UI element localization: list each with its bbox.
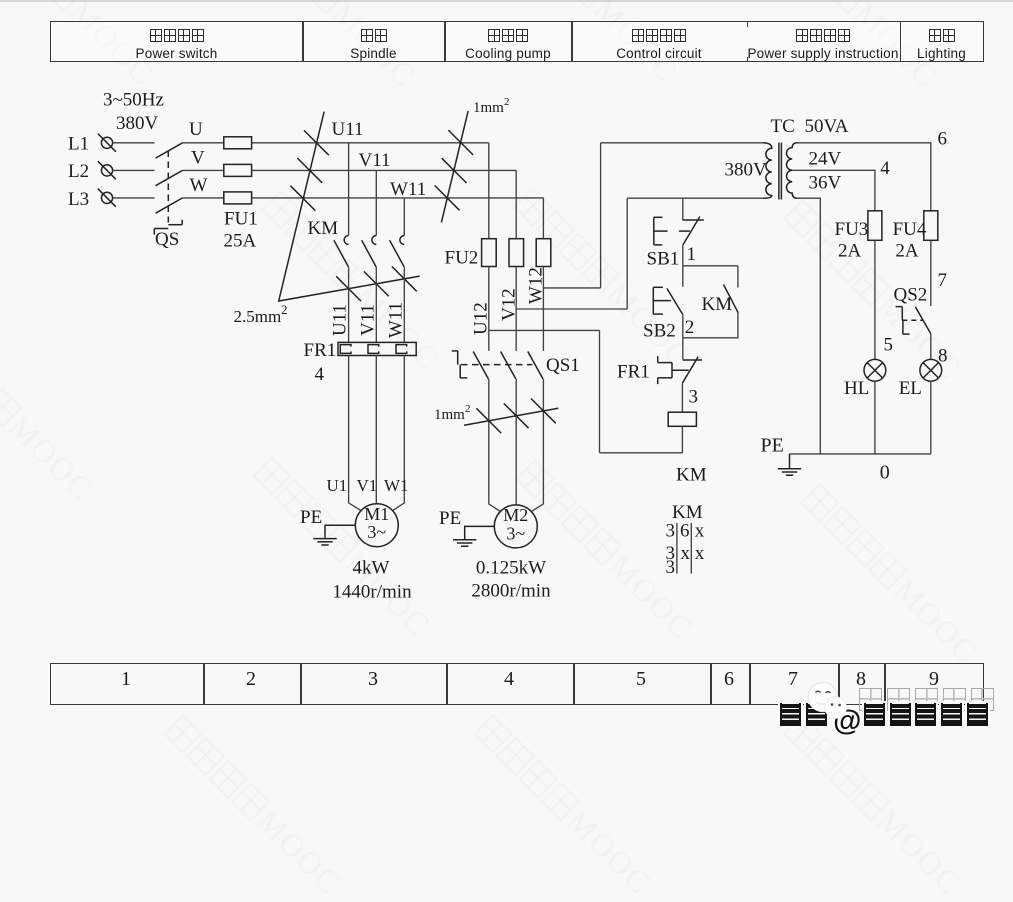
svg-text:1mm: 1mm <box>434 407 465 423</box>
contactor KM main contact 2 <box>362 236 377 267</box>
bottom-right dark watermark text <box>778 703 990 738</box>
wire U12 to coil return <box>489 329 600 331</box>
wire KM contact 1 to FR1 <box>348 267 350 343</box>
cable marker 1mm2 tick on W <box>435 186 460 211</box>
fuse FU1 pole 2 <box>224 164 252 176</box>
wire coil return bottom <box>600 452 683 454</box>
svg-text:V11: V11 <box>357 304 378 336</box>
svg-text:L1: L1 <box>68 134 89 155</box>
wire control feed top to transformer primary <box>601 142 763 144</box>
svg-text:V1: V1 <box>357 476 378 495</box>
wire V main bus <box>252 169 517 171</box>
node L3 supply terminal <box>68 189 116 210</box>
svg-text:2A: 2A <box>838 240 862 261</box>
svg-text:U11: U11 <box>332 119 364 140</box>
svg-text:QS1: QS1 <box>546 355 580 376</box>
thermal relay FR1 heater element 1 <box>340 345 351 354</box>
thermal relay FR1 heater element 3 <box>396 345 407 354</box>
svg-text:M2: M2 <box>503 505 528 525</box>
svg-text:PE: PE <box>300 507 322 528</box>
switch QS pole 3 blade <box>156 198 183 213</box>
wire FU4 to QS2 <box>930 240 932 306</box>
wire SB1 to node 1 <box>682 245 684 287</box>
cable marker 1mm2 on main bus <box>441 111 468 222</box>
transformer TC core <box>779 143 782 200</box>
contactor KM coil <box>668 412 696 426</box>
wire QS to FU1 row V <box>183 169 224 171</box>
wire W to KM contact 3 <box>403 198 405 236</box>
svg-text:FU4: FU4 <box>893 219 927 240</box>
switch QS linkage dashed line <box>167 151 169 223</box>
svg-text:6: 6 <box>938 129 948 150</box>
svg-text:L2: L2 <box>68 161 89 182</box>
motor M1 <box>355 504 398 547</box>
wire QS2 to node 8 <box>930 334 932 360</box>
wire FR1 to M1 phase 2 <box>375 356 377 504</box>
svg-text:SB2: SB2 <box>643 320 676 341</box>
svg-text:2.5mm: 2.5mm <box>234 307 282 326</box>
fuse FU3 <box>868 211 882 241</box>
svg-text:U: U <box>189 119 203 140</box>
motor M2 <box>494 505 537 548</box>
wire U bus corner down to FU2-1 <box>488 143 490 239</box>
switch QS1 pole 1 blade <box>473 352 488 379</box>
label supply rating 3~50Hz 380V <box>103 90 164 134</box>
wire V to KM contact 2 <box>375 170 377 235</box>
svg-text:L3: L3 <box>68 189 89 210</box>
svg-text:FU2: FU2 <box>445 247 479 268</box>
svg-text:380V: 380V <box>725 159 768 180</box>
thermal relay FR1 heater box <box>338 342 416 355</box>
wire KM contact 2 to FR1 <box>375 267 377 343</box>
fuse FU2 pole 1 <box>482 239 497 267</box>
wire FR1 to M1 phase 1 <box>349 356 362 511</box>
svg-text:EL: EL <box>899 378 922 399</box>
svg-text:1mm: 1mm <box>473 100 504 116</box>
wire QS1 to M2 phase 2 <box>515 379 517 505</box>
svg-text:W11: W11 <box>386 302 407 338</box>
wire L1 to QS <box>113 142 155 144</box>
top hairline <box>0 0 1013 2</box>
svg-text:U11: U11 <box>330 304 351 336</box>
wire FU3 to lamp HL <box>874 240 876 359</box>
svg-text:1440r/min: 1440r/min <box>332 581 412 602</box>
switch QS pole 2 blade <box>156 170 183 185</box>
svg-text:KM: KM <box>676 464 707 485</box>
wire primary bottom rail <box>627 197 763 199</box>
wire L2 to QS <box>113 169 155 171</box>
contactor KM main contact 3 <box>390 236 405 267</box>
wire W bus corner down to FU2-3 <box>542 198 544 239</box>
wire node 1 to KM aux branch <box>683 265 738 267</box>
label 2.5mm2 <box>234 302 288 326</box>
wire V12 to transformer primary bottom riser <box>516 308 627 310</box>
svg-text:KM: KM <box>702 294 733 315</box>
ground symbol M1 <box>313 525 355 545</box>
contactor KM main contact 1 <box>334 236 349 267</box>
watermark layer <box>0 0 162 93</box>
svg-text:QS: QS <box>155 229 179 250</box>
wire L3 to QS <box>113 197 155 199</box>
svg-text:TC: TC <box>771 116 795 137</box>
svg-text:M1: M1 <box>364 504 389 524</box>
fuse FU1 pole 1 <box>224 137 252 149</box>
svg-text:HL: HL <box>844 378 869 399</box>
bottom-right brand logo smileys <box>806 681 868 723</box>
cable marker 2.5mm2 tick on V11 <box>364 271 389 296</box>
switch QS operating handle <box>154 220 182 235</box>
contactor KM auxiliary contact blade <box>724 285 739 313</box>
svg-text:4kW: 4kW <box>353 558 390 579</box>
switch QS pole 1 blade <box>156 143 183 158</box>
wire lamp EL to node 0 rail <box>930 381 932 454</box>
cable marker 2.5mm2 tick on V <box>297 158 322 183</box>
svg-text:FR1: FR1 <box>617 361 650 382</box>
pushbutton SB1 stop <box>654 198 704 245</box>
label 1mm2 bottom <box>434 403 471 423</box>
fuse FU2 pole 2 <box>509 239 524 267</box>
wire W main bus <box>252 197 544 199</box>
svg-text:x: x <box>695 521 705 542</box>
cable marker 1mm2 tick on M2 phase 3 <box>531 399 556 424</box>
svg-text:U1: U1 <box>327 476 348 495</box>
wire lamp HL to node 0 rail <box>874 381 876 454</box>
cable marker 1mm2 on M2 feeder <box>464 408 558 425</box>
fuse FU2 pole 3 <box>536 239 551 267</box>
wire KM aux upper terminal <box>737 266 739 288</box>
wire QS1 to M2 phase 3 <box>531 379 544 512</box>
svg-text:SB1: SB1 <box>647 248 680 269</box>
svg-text:3: 3 <box>689 386 699 407</box>
node L1 supply terminal <box>68 134 116 155</box>
cable marker 1mm2 tick on M2 phase 2 <box>504 403 529 428</box>
svg-text:380V: 380V <box>116 113 159 134</box>
svg-text:5: 5 <box>884 334 894 355</box>
svg-text:V11: V11 <box>359 150 391 171</box>
svg-text:2: 2 <box>685 317 695 338</box>
wire W12 to control feed <box>543 287 600 289</box>
svg-text:W: W <box>190 175 208 196</box>
svg-text:FU3: FU3 <box>835 219 869 240</box>
svg-text:3: 3 <box>666 521 676 542</box>
svg-text:3~50Hz: 3~50Hz <box>103 90 164 111</box>
svg-text:3~: 3~ <box>506 523 525 543</box>
wire node 2 to FR1 contact <box>682 314 684 359</box>
node L2 supply terminal <box>68 161 116 182</box>
cable marker 1mm2 tick on U <box>448 130 473 155</box>
switch QS1 pole 2 blade <box>501 352 516 379</box>
wire FR1 contact to KM coil <box>681 383 683 412</box>
svg-text:2A: 2A <box>895 240 919 261</box>
switch QS1 linkage dashed line <box>461 364 532 366</box>
svg-text:FR1: FR1 <box>304 340 337 361</box>
wire QS to FU1 row U <box>183 142 224 144</box>
switch QS2 blade <box>915 307 930 334</box>
wire KM aux lower terminal <box>683 313 738 338</box>
svg-text:0.125kW: 0.125kW <box>476 558 546 579</box>
svg-text:FU1: FU1 <box>224 208 258 229</box>
wire FR1 to M1 phase 3 <box>392 356 404 511</box>
svg-text:4: 4 <box>315 364 325 385</box>
svg-text:2: 2 <box>465 403 471 415</box>
ground symbol lighting PE <box>778 454 801 475</box>
svg-text:PE: PE <box>439 508 461 529</box>
wire U to KM contact 1 <box>348 143 350 236</box>
svg-text:PE: PE <box>761 435 784 457</box>
svg-text:U12: U12 <box>471 302 492 335</box>
switch QS1 operating handle <box>452 351 468 378</box>
svg-text:2: 2 <box>504 96 510 108</box>
KM contact usage table <box>666 502 705 578</box>
wire QS1 to M2 phase 1 <box>489 379 501 512</box>
transformer TC secondary winding 24V <box>787 143 798 171</box>
svg-text:6: 6 <box>680 521 690 542</box>
wire secondary top to node 6 <box>798 143 931 211</box>
wire KM contact 3 to FR1 <box>403 267 405 343</box>
wire FU2-3 down to QS1 <box>542 267 544 351</box>
svg-text:36V: 36V <box>809 173 842 194</box>
svg-text:W1: W1 <box>384 476 409 495</box>
cable marker 2.5mm2 tick on U11 <box>336 276 361 301</box>
wire KM coil to return <box>681 426 683 453</box>
svg-text:KM: KM <box>308 218 339 239</box>
svg-text:V: V <box>191 148 205 169</box>
ground symbol M2 <box>453 526 494 546</box>
lamp EL <box>920 359 942 381</box>
svg-text:W12: W12 <box>526 267 547 304</box>
svg-text:0: 0 <box>880 461 890 483</box>
wire secondary bottom 36V return <box>798 198 821 454</box>
cable marker 1mm2 tick on V <box>442 158 467 183</box>
fuse FU4 <box>924 211 938 241</box>
wire secondary tap to node 4 <box>792 170 875 211</box>
svg-text:W11: W11 <box>390 179 426 200</box>
cable marker 2.5mm2 tick on U <box>304 130 329 155</box>
wire U main bus <box>252 142 489 144</box>
bottom-right hollow watermark text <box>857 688 996 716</box>
cable marker 1mm2 tick on M2 phase 1 <box>476 408 501 433</box>
fuse FU1 pole 3 <box>224 192 252 204</box>
svg-text:V12: V12 <box>498 288 519 321</box>
wire control feed riser <box>600 143 602 288</box>
transformer TC secondary winding 36V <box>786 170 797 198</box>
wire FU2-1 down to QS1 <box>488 267 490 351</box>
svg-text:x: x <box>681 543 691 564</box>
cable marker 2.5mm2 polyline <box>279 112 420 301</box>
svg-text:7: 7 <box>938 270 948 291</box>
svg-text:3: 3 <box>666 557 676 578</box>
wire node 0 rail <box>790 453 931 455</box>
label 1mm2 top <box>473 96 510 116</box>
thermal relay FR1 heater element 2 <box>368 345 379 354</box>
wire FU2-2 down to QS1 <box>515 267 517 351</box>
svg-text:x: x <box>695 543 705 564</box>
svg-text:25A: 25A <box>224 231 257 252</box>
thermal relay FR1 control contact <box>658 356 702 384</box>
svg-text:QS2: QS2 <box>894 284 928 305</box>
wire QS to FU1 row W <box>183 197 224 199</box>
svg-text:1: 1 <box>687 244 697 265</box>
cable marker 2.5mm2 tick on W11 <box>392 267 417 292</box>
wire riser to primary bottom <box>626 198 628 309</box>
pushbutton SB2 start <box>653 287 682 314</box>
switch QS1 pole 3 blade <box>528 352 543 379</box>
svg-text:2800r/min: 2800r/min <box>471 580 551 601</box>
svg-text:4: 4 <box>880 158 890 179</box>
svg-text:3~: 3~ <box>367 522 386 542</box>
wire coil return riser <box>599 330 601 452</box>
svg-text:2: 2 <box>281 302 288 317</box>
wire V bus corner down to FU2-2 <box>515 170 517 238</box>
svg-text:50VA: 50VA <box>805 116 849 137</box>
transformer TC primary winding 380V <box>763 143 772 198</box>
switch QS2 operating handle <box>896 307 923 335</box>
cable marker 2.5mm2 tick on W <box>291 186 316 211</box>
svg-text:24V: 24V <box>809 149 842 170</box>
lamp HL <box>864 359 886 381</box>
